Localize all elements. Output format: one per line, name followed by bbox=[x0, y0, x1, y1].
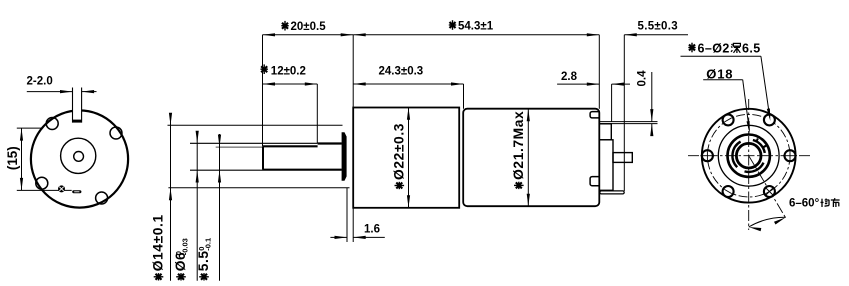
dimension Ø6 line bbox=[196, 132, 198, 281]
label 6-Ø2 depth 6.5 bbox=[688, 42, 760, 56]
svg-text:54.3±1: 54.3±1 bbox=[458, 21, 494, 33]
svg-text:6–Ø2: 6–Ø2 bbox=[698, 42, 730, 56]
extension line flat end bbox=[316, 84, 318, 143]
motor top tab bbox=[590, 112, 599, 118]
svg-text:Ø22±0.3: Ø22±0.3 bbox=[391, 123, 406, 180]
endcap main box bbox=[599, 140, 613, 191]
svg-text:20±0.5: 20±0.5 bbox=[291, 21, 327, 33]
svg-text:(15): (15) bbox=[5, 146, 20, 170]
left view terminal slot detail bbox=[72, 190, 81, 193]
shaft flat milled section bbox=[263, 145, 318, 147]
rear view outer circle bbox=[702, 109, 796, 203]
left view shaft tab bbox=[73, 90, 82, 123]
left view motor outline circle bbox=[31, 110, 128, 207]
hole centerline ticks bbox=[766, 189, 773, 193]
left view middle circle bbox=[61, 138, 96, 173]
rear view boss circle Ø18 bbox=[728, 135, 770, 177]
svg-text:24.3±0.3: 24.3±0.3 bbox=[379, 66, 424, 78]
shaft Ø6 outline bbox=[190, 142, 318, 144]
label 5.5 tolerance bbox=[196, 238, 213, 281]
svg-text:Ø21.7Max: Ø21.7Max bbox=[511, 111, 526, 180]
svg-text:2-2.0: 2-2.0 bbox=[27, 76, 53, 88]
extension line gearbox face bbox=[352, 35, 354, 108]
svg-text:5.5: 5.5 bbox=[196, 250, 211, 271]
label Ø21.7Max bbox=[511, 111, 526, 189]
rear view bearing circle bbox=[736, 143, 761, 168]
motor body outline bbox=[463, 109, 599, 207]
rear view inner circle r30 bbox=[718, 125, 779, 186]
svg-text:5.5±0.3: 5.5±0.3 bbox=[638, 21, 678, 33]
label Ø14±0.1 bbox=[151, 214, 166, 280]
terminal tab side bbox=[613, 153, 632, 163]
svg-text:-0.1: -0.1 bbox=[204, 238, 213, 251]
label Ø6 tolerance bbox=[173, 238, 190, 280]
svg-text:0.4: 0.4 bbox=[637, 70, 649, 87]
extension line flat start bbox=[262, 35, 264, 146]
dimension Ø21.7 line bbox=[527, 109, 529, 206]
left view terminal dot detail bbox=[58, 185, 65, 192]
front bearing boss bbox=[342, 132, 347, 180]
angular dimension 6-60 bbox=[749, 217, 786, 227]
dimension 5.5 line bbox=[219, 134, 221, 281]
rear view arc slots bbox=[732, 142, 740, 168]
svg-text:6.5: 6.5 bbox=[742, 42, 761, 56]
motor bottom tab bbox=[590, 177, 599, 186]
rear view bolt circle bbox=[707, 114, 790, 197]
svg-text:Ø18: Ø18 bbox=[706, 66, 733, 81]
dimension 20±0.5 bbox=[263, 34, 354, 36]
lower terminal strip bbox=[600, 191, 624, 194]
dimension Ø22 line bbox=[408, 107, 410, 208]
dimension 2.8 bbox=[557, 83, 599, 85]
vent strip lines 0.4 bbox=[599, 121, 657, 123]
rear view centerline horizontal bbox=[688, 155, 811, 157]
rear view 60-degree radial centerline bbox=[749, 156, 787, 220]
dimension 24.3±0.3 bbox=[353, 83, 463, 85]
endcap upper box bbox=[599, 124, 611, 140]
dimension 54.3±1 bbox=[353, 34, 599, 36]
dimension (15) bbox=[17, 127, 42, 129]
svg-text:12±0.2: 12±0.2 bbox=[271, 66, 306, 78]
gearbox outline bbox=[353, 108, 459, 208]
hole cross marks bbox=[783, 155, 797, 157]
svg-text:Ø14±0.1: Ø14±0.1 bbox=[151, 214, 166, 271]
dimension Ø14 line bbox=[170, 114, 172, 281]
dimension 5.5±0.3 bbox=[624, 34, 688, 36]
Ø14 extension lines bbox=[168, 124, 343, 126]
dimension 1.6 bbox=[346, 188, 348, 242]
svg-text:2.8: 2.8 bbox=[561, 71, 578, 83]
left view rim notch circles bbox=[110, 127, 122, 139]
extension line motor front bbox=[463, 84, 465, 109]
svg-text:-0.03: -0.03 bbox=[181, 238, 190, 255]
left view center shaft circle bbox=[74, 152, 84, 162]
extension line motor rear bbox=[598, 35, 600, 109]
dimension 12±0.2 bbox=[263, 83, 318, 85]
extension line terminal end bbox=[623, 35, 625, 191]
shaft flat edge line bbox=[216, 146, 263, 148]
svg-text:1.6: 1.6 bbox=[364, 224, 380, 236]
rear view mounting holes 6x bbox=[785, 150, 796, 161]
dimension 0.4 bbox=[651, 72, 653, 122]
rear view centerline vertical bbox=[748, 99, 750, 230]
svg-text:6–60°: 6–60° bbox=[789, 198, 820, 210]
label Ø22±0.3 bbox=[391, 123, 406, 189]
